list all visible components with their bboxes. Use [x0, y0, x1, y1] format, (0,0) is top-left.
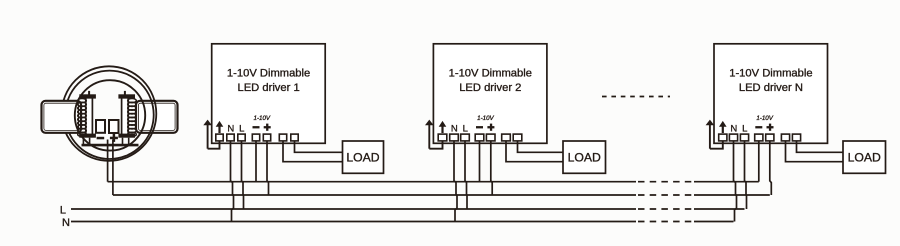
- earth arrow U2: [425, 120, 434, 149]
- svg-text:1-10V Dimmable: 1-10V Dimmable: [729, 67, 812, 79]
- wire earth terminal U2: [429, 141, 442, 149]
- svg-text:L: L: [463, 123, 468, 134]
- svg-text:1-10V: 1-10V: [756, 115, 773, 122]
- terminal dim+ U2: [486, 134, 495, 141]
- svg-text:N: N: [730, 123, 737, 134]
- dimmer minus mark: [97, 137, 105, 140]
- wire L bus: [71, 208, 745, 210]
- terminal N U2: [450, 134, 459, 141]
- wire N terminal U2 to N bus: [454, 141, 457, 222]
- svg-text:L: L: [742, 123, 747, 134]
- dimmer left screw column with spring: [78, 91, 96, 146]
- earth arrow U1: [203, 120, 212, 149]
- wire out1 U3 to load: [786, 141, 844, 162]
- svg-text:1-10V Dimmable: 1-10V Dimmable: [227, 67, 310, 79]
- minus pin mark U3: [755, 126, 762, 128]
- dimmer middle ring: [65, 71, 153, 159]
- LOAD box for U3: [843, 141, 886, 173]
- wire dim+ terminal U3 to dim+ bus: [770, 141, 772, 196]
- terminal earth arrow label U1: [216, 121, 224, 133]
- wire dim+ terminal U1 to dim+ bus: [267, 141, 269, 196]
- wire dim- terminal U3 to dim- bus: [758, 141, 760, 182]
- wire dim- terminal U2 to dim- bus: [479, 141, 481, 182]
- terminal N U1: [227, 134, 234, 141]
- terminal L U2: [461, 134, 470, 141]
- svg-text:L: L: [239, 123, 244, 134]
- dimmer plus mark: [110, 134, 118, 142]
- wire L terminal U1 to L bus: [242, 141, 244, 210]
- dimmer minus terminal block: [96, 120, 105, 133]
- svg-text:LED driver 1: LED driver 1: [238, 82, 300, 94]
- svg-text:1-10V: 1-10V: [254, 115, 271, 122]
- dimmer left tab: [42, 101, 82, 133]
- minus pin mark U1: [253, 126, 260, 128]
- terminal L U1: [238, 134, 245, 141]
- svg-text:LOAD: LOAD: [848, 151, 881, 165]
- wire L terminal U2 to L bus: [465, 141, 467, 210]
- wire dim- bus: [108, 181, 759, 183]
- wire out2 U2 to load: [518, 141, 564, 153]
- wire N terminal U3 to N bus: [734, 141, 737, 222]
- plus pin mark U1: [264, 124, 271, 131]
- svg-text:LOAD: LOAD: [346, 151, 379, 165]
- wire out1 U1 to load: [283, 141, 343, 162]
- wire dim+ bus: [113, 194, 770, 196]
- terminal dim+ U1: [263, 134, 270, 141]
- terminal earth arrow label U2: [439, 121, 447, 133]
- terminal out1 U3: [781, 134, 789, 141]
- terminal dim- U1: [252, 134, 259, 141]
- svg-text:N: N: [62, 217, 70, 229]
- dimmer inner ring: [75, 80, 145, 150]
- wire earth terminal U3: [710, 141, 723, 149]
- LED driver U1 label: [227, 67, 310, 94]
- terminal earth arrow label U3: [719, 121, 727, 133]
- wire out1 U2 to load: [506, 141, 563, 162]
- terminal earth U1: [216, 134, 223, 141]
- LOAD box for U1: [343, 141, 384, 173]
- LED driver U2 label: [449, 67, 532, 94]
- LED driver U2 box: [433, 44, 547, 144]
- terminal earth U3: [719, 134, 727, 141]
- minus pin mark U2: [476, 126, 483, 128]
- wire dim- terminal U1 to dim- bus: [255, 141, 257, 182]
- svg-text:1-10V: 1-10V: [477, 115, 494, 122]
- plus pin mark U3: [767, 124, 774, 131]
- dimmer plus terminal block: [109, 120, 119, 133]
- terminal N U3: [729, 134, 737, 141]
- LED driver U3 box: [714, 44, 828, 144]
- plus pin mark U2: [487, 124, 494, 131]
- terminal dim- U3: [755, 134, 763, 141]
- terminal dim- U2: [475, 134, 484, 141]
- wire out2 U1 to load: [295, 141, 343, 153]
- wire out2 U3 to load: [797, 141, 844, 153]
- terminal dim+ U3: [766, 134, 774, 141]
- terminal earth U2: [438, 134, 447, 141]
- dimmer base plate line: [82, 144, 139, 147]
- wire N terminal U1 to N bus: [231, 141, 234, 222]
- terminal out1 U2: [502, 134, 511, 141]
- wire earth terminal U1: [208, 141, 220, 149]
- wire dimmer plus to dim+ bus: [112, 140, 114, 196]
- svg-text:N: N: [227, 123, 234, 134]
- earth arrow U3: [706, 120, 715, 149]
- wire L terminal U3 to L bus: [745, 141, 747, 210]
- LED driver U1 box: [212, 44, 326, 144]
- terminal out2 U3: [792, 134, 800, 141]
- terminal out2 U2: [513, 134, 522, 141]
- svg-text:LOAD: LOAD: [568, 151, 601, 165]
- dimmer right tab: [136, 101, 178, 133]
- terminal out1 U1: [279, 134, 286, 141]
- dimmer outer circle: [62, 66, 157, 161]
- wire N bus: [71, 221, 734, 223]
- terminal L U3: [740, 134, 748, 141]
- wire dimmer minus to dim- bus: [107, 140, 109, 182]
- wire dim+ terminal U2 to dim+ bus: [491, 141, 492, 196]
- dashed continuation line: [602, 96, 670, 98]
- LED driver U3 label: [729, 67, 812, 94]
- svg-text:1-10V Dimmable: 1-10V Dimmable: [449, 67, 532, 79]
- svg-text:LED driver N: LED driver N: [739, 82, 803, 94]
- terminal out2 U1: [291, 134, 298, 141]
- svg-text:N: N: [451, 123, 458, 134]
- svg-text:L: L: [60, 204, 66, 216]
- LOAD box for U2: [563, 141, 606, 173]
- dimmer right screw column with spring: [118, 91, 136, 146]
- svg-text:LED driver 2: LED driver 2: [459, 82, 521, 94]
